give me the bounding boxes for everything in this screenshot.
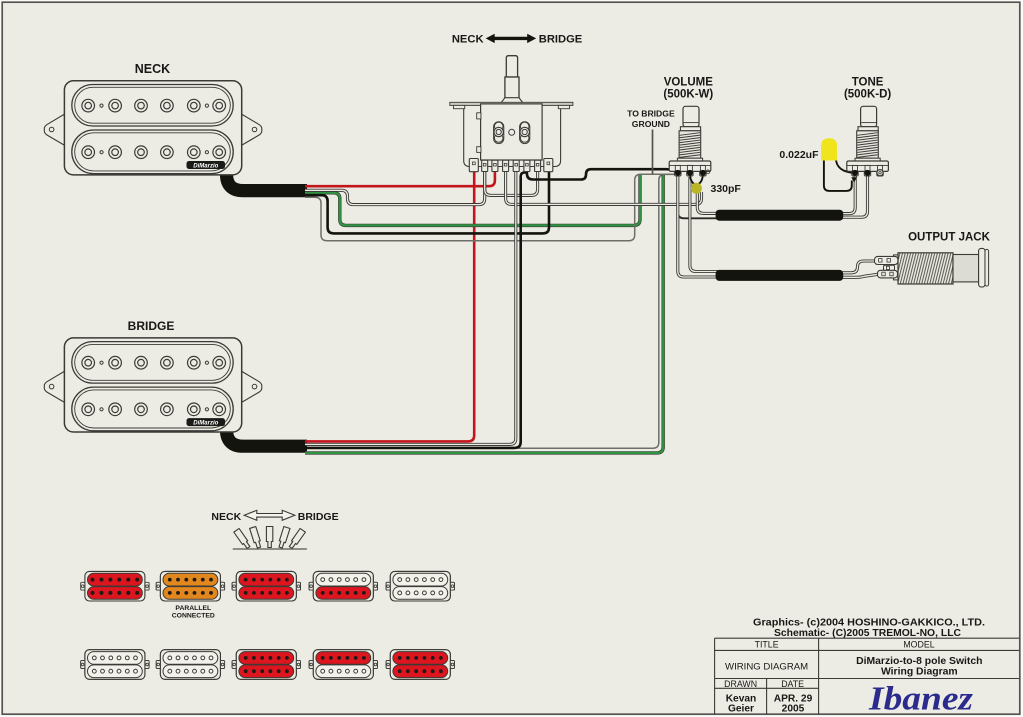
mini pickup top row pos4: [309, 571, 377, 601]
svg-text:TO BRIDGE: TO BRIDGE: [627, 109, 675, 119]
svg-text:CONNECTED: CONNECTED: [172, 613, 215, 620]
wire: neck green to volume casing: [305, 175, 640, 225]
jack tip lug: [875, 256, 899, 264]
svg-text:Wiring Diagram: Wiring Diagram: [881, 667, 958, 678]
wire: switch lug4 white to 330pF node: [506, 171, 702, 205]
svg-text:WIRING DIAGRAM: WIRING DIAGRAM: [725, 661, 808, 672]
switch lever tip: [506, 56, 517, 77]
mini pickup bottom row pos3: [232, 650, 300, 680]
mini pickup bottom row pos1: [81, 650, 149, 680]
wire: 330pF node white to tone shielded cable: [697, 192, 718, 213]
wire: bridge white to switch lug5: [305, 171, 516, 445]
selector lever positions fan: [234, 527, 306, 550]
svg-text:Schematic- (C)2005 TREMOL-NO,: Schematic- (C)2005 TREMOL-NO, LLC: [774, 628, 961, 639]
switch rotor slot left: [494, 122, 504, 144]
jack flange: [979, 248, 985, 287]
wire: jack cable white to jack sleeve lug: [841, 274, 878, 277]
switch lever flare: [501, 98, 522, 103]
svg-text:(500K-W): (500K-W): [663, 88, 713, 100]
capacitor 0.022uF: [821, 138, 837, 160]
wire: jack cable white to jack tip lug: [841, 261, 878, 273]
title block grid: [715, 638, 1020, 714]
svg-text:BRIDGE: BRIDGE: [128, 319, 175, 333]
svg-text:APR. 29: APR. 29: [774, 693, 813, 704]
neck humbucker: [44, 81, 261, 175]
wire: tone cable white to tone lug2: [841, 173, 868, 217]
mini pickup bottom row pos5: [386, 650, 454, 680]
switch lug 2: [482, 160, 488, 171]
mini pickup bottom row pos2: [156, 650, 224, 680]
wire: 0.022uF cap lead to tone casing: [824, 158, 852, 191]
mini pickup bottom row pos4: [309, 650, 377, 680]
wire: 0.022uF cap lead to tone lug1: [836, 158, 855, 173]
switch body side tab upper: [477, 113, 481, 119]
switch frame: [464, 106, 561, 167]
wire: bridge green to volume casing: [305, 175, 663, 453]
svg-text:2005: 2005: [782, 704, 805, 715]
svg-text:VOLUME: VOLUME: [664, 77, 714, 89]
tone solder dots lugs 1-2: [852, 170, 858, 176]
shielded cable volume to tone: [716, 210, 844, 221]
svg-text:Kevan: Kevan: [726, 693, 757, 704]
mini pickup top row pos2: [156, 571, 224, 601]
switch rotor circles left: [494, 122, 503, 131]
jack smooth sleeve: [953, 255, 979, 282]
wire: volume lug1 branch to tone shielded cable: [678, 173, 718, 218]
svg-text:NECK: NECK: [135, 62, 170, 76]
svg-text:BRIDGE: BRIDGE: [298, 511, 339, 523]
tone open lug 3 ring: [877, 170, 883, 176]
volume solder dots lugs 1-3: [675, 170, 681, 176]
svg-text:PARALLEL: PARALLEL: [175, 605, 211, 612]
tone pot base: [847, 161, 889, 171]
mini pickup top row pos5: [386, 571, 454, 601]
capacitor 330pF: [691, 183, 702, 194]
switch body side tab lower: [477, 147, 481, 153]
svg-text:NECK: NECK: [452, 34, 484, 46]
volume pot casing hole: [706, 170, 710, 174]
switch lug 3: [492, 160, 498, 171]
jack lug plate: [894, 255, 900, 280]
shielded cable volume to output jack: [716, 270, 844, 281]
svg-text:Geier: Geier: [728, 704, 754, 715]
svg-text:NECK: NECK: [211, 511, 241, 523]
switch lug 6: [524, 160, 530, 171]
mini pickup top row pos5: [386, 571, 454, 601]
wire: volume lug2 to output jack cable (white): [690, 177, 718, 272]
switch lug 8 (outer right): [544, 159, 553, 172]
mini pickup bottom row pos1: [81, 650, 149, 680]
wire: volume lug1 to output jack cable (white): [678, 173, 718, 277]
volume pot shaft and bushing: [677, 106, 702, 161]
switch lever base: [505, 77, 519, 101]
svg-text:OUTPUT JACK: OUTPUT JACK: [908, 232, 990, 244]
wire: bridge bare shield to volume ground lug: [518, 174, 674, 448]
tone pot shaft and bushing: [855, 106, 880, 161]
switch lug 1 (outer left): [469, 159, 478, 172]
tone pot lug tabs: [852, 171, 858, 176]
svg-text:MODEL: MODEL: [903, 640, 934, 650]
wire: tone cable white to tone lug1: [841, 173, 855, 214]
wire: 330pF lead from volume lug2: [690, 173, 695, 184]
svg-text:TONE: TONE: [852, 77, 884, 89]
solder wedge on tone casing: [851, 177, 857, 182]
switch lug 4: [503, 160, 509, 171]
switch rotor slot right: [520, 122, 530, 144]
svg-text:BRIDGE: BRIDGE: [539, 34, 583, 46]
svg-text:DRAWN: DRAWN: [724, 679, 757, 689]
jack middle lug: [884, 265, 895, 270]
switch plate bracket right: [558, 105, 569, 108]
wire: 330pF lead from volume lug3: [698, 173, 703, 184]
wire: bridge black to switch lug6: [305, 172, 528, 448]
wire: white jumper switch lug2 to lug7: [485, 171, 538, 196]
volume pot lug tabs: [675, 171, 681, 176]
jack sleeve lug: [878, 270, 898, 278]
switch body: [481, 104, 542, 160]
mini pickup bottom row pos3: [232, 650, 300, 680]
svg-text:DiMarzio-to-8 pole Switch: DiMarzio-to-8 pole Switch: [856, 656, 982, 667]
switch center pivot: [509, 129, 515, 135]
svg-text:(500K-D): (500K-D): [844, 88, 891, 100]
wire: neck pickup cable (black jacket): [227, 168, 308, 191]
wire: neck white to switch lug2 (outlined white wire): [305, 171, 485, 205]
svg-text:GROUND: GROUND: [632, 119, 670, 129]
mini pickup top row pos1: [81, 571, 149, 601]
switch rotor circles right: [520, 122, 529, 131]
switch plate bracket left: [454, 105, 465, 108]
selector outline double arrow: [244, 510, 295, 520]
switch direction arrow: [492, 37, 530, 40]
switch mounting plate: [450, 102, 573, 105]
svg-text:330pF: 330pF: [711, 183, 742, 195]
wire: switch lug6 black to volume lug1: [527, 169, 678, 179]
jack threaded barrel: [898, 253, 953, 284]
wire: neck black to switch lug8: [305, 171, 549, 234]
mini pickup bottom row pos2: [156, 650, 224, 680]
svg-text:TITLE: TITLE: [755, 640, 779, 650]
wire: neck bare shield to volume ground lug: [305, 174, 676, 241]
wire: to bridge ground lead: [652, 130, 654, 175]
mini pickup top row pos4: [309, 571, 377, 601]
wire: bridge pickup cable (black jacket): [227, 424, 308, 446]
mini pickup bottom row pos5: [386, 650, 454, 680]
switch lug 5: [513, 160, 519, 171]
svg-text:Ibanez: Ibanez: [868, 681, 974, 717]
volume pot base: [669, 161, 711, 171]
svg-text:0.022uF: 0.022uF: [779, 149, 819, 161]
mini pickup top row pos3: [232, 571, 300, 601]
svg-text:DATE: DATE: [781, 679, 804, 689]
selector base line: [233, 548, 307, 550]
mini pickup top row pos3: [232, 571, 300, 601]
bridge humbucker: [44, 338, 261, 432]
wire: bridge red to switch lug1: [305, 171, 474, 442]
mini pickup bottom row pos4: [309, 650, 377, 680]
mini pickup top row pos2: [156, 571, 224, 601]
switch lug 7: [535, 160, 541, 171]
wire: neck red to switch lug3: [305, 171, 495, 187]
